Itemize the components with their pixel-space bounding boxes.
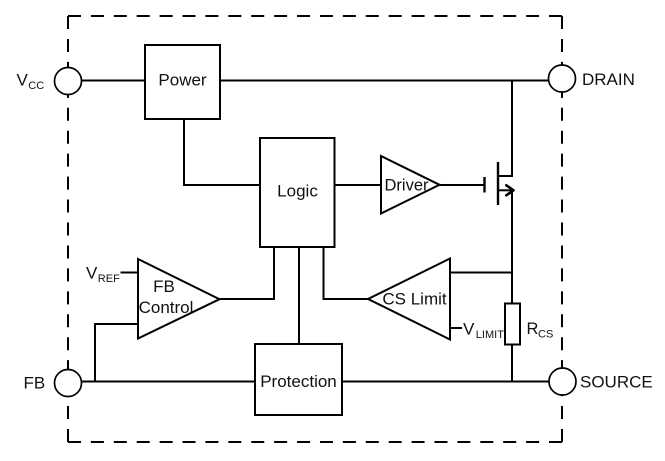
svg-text:SOURCE: SOURCE (580, 373, 653, 392)
gate bar (483, 177, 485, 193)
svg-text:V: V (17, 71, 29, 90)
svg-text:V: V (86, 264, 98, 283)
source connection with arrow (497, 189, 513, 191)
wire Logic down to Protection (298, 247, 300, 344)
wire Protection to SOURCE pin (342, 381, 550, 383)
svg-text:LIMIT: LIMIT (476, 329, 504, 341)
svg-text:CS: CS (538, 329, 553, 341)
svg-text:CC: CC (28, 80, 44, 92)
wire FB branch up to FB Control input (95, 324, 138, 382)
node VREF label (86, 264, 120, 286)
op-amp FB Control (138, 259, 220, 339)
wire Logic down to CS Limit input (324, 247, 369, 299)
wire CS Limit top input to source sense node (450, 272, 513, 274)
IC boundary dashed box (68, 16, 562, 442)
wire FB Control output to Logic (220, 247, 275, 299)
svg-text:Power: Power (158, 71, 207, 90)
resistor RCS (505, 304, 553, 345)
wire VCC to Power (81, 80, 145, 82)
block Protection (255, 344, 342, 415)
op-amp CS Limit (368, 259, 450, 340)
svg-text:DRAIN: DRAIN (582, 70, 635, 89)
svg-text:FB: FB (24, 374, 46, 393)
pin DRAIN (549, 65, 635, 92)
wire VREF stub to FB Control (121, 272, 139, 274)
svg-text:Protection: Protection (260, 372, 337, 391)
channel bar (497, 162, 499, 205)
wire VLIMIT stub to CS Limit (450, 327, 462, 329)
svg-text:Logic: Logic (277, 182, 318, 201)
svg-text:R: R (527, 320, 539, 338)
transistor Q1 power MOSFET (485, 162, 514, 205)
svg-text:FB: FB (153, 277, 175, 296)
wire RCS to bottom rail (511, 345, 513, 382)
block Logic (260, 138, 335, 247)
wire Logic to Driver (335, 184, 382, 186)
wire Power to DRAIN rail (220, 80, 549, 82)
wire FB pin to Protection (81, 381, 255, 383)
pin FB (24, 370, 82, 397)
op-amp Driver (381, 156, 440, 214)
pin VCC (17, 68, 82, 95)
node VLIMIT label (463, 320, 504, 342)
svg-text:CS Limit: CS Limit (382, 290, 447, 309)
wire Driver output to gate (440, 184, 485, 186)
wire Power down to Logic (184, 119, 260, 185)
drain connection (497, 175, 512, 177)
wire source of MOSFET down to RCS (511, 190, 513, 304)
pin SOURCE (549, 368, 653, 395)
svg-text:Control: Control (139, 298, 194, 317)
svg-text:V: V (463, 320, 475, 339)
block Power (145, 45, 220, 119)
wire drain branch down from top rail (498, 81, 512, 177)
svg-text:REF: REF (98, 273, 120, 285)
svg-text:Driver: Driver (385, 177, 430, 195)
